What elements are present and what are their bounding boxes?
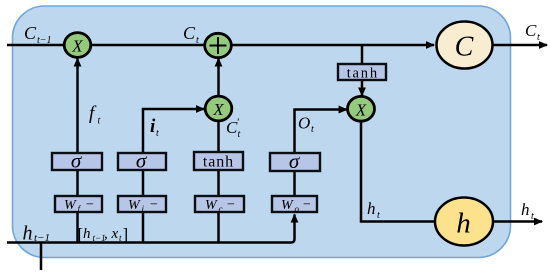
svg-text:]: ]: [123, 225, 129, 244]
wire hidden output elbow to h: [361, 121, 436, 222]
label [h_{t-1}, x_t]: [78, 225, 129, 244]
svg-text:W: W: [281, 198, 294, 213]
svg-text:σ: σ: [136, 149, 148, 173]
wire C output line: [492, 44, 547, 47]
wire tanh branch down from top line: [361, 45, 364, 64]
svg-text:t: t: [311, 124, 314, 135]
multiplier X2 (candidate): [205, 96, 232, 121]
svg-text:h: h: [456, 208, 471, 240]
multiplier X1 (forget): [64, 33, 91, 58]
wire output-gate column with elbow to X: [295, 110, 347, 172]
svg-text:X: X: [212, 100, 224, 119]
wire bottom input line: [7, 215, 295, 243]
label h_{t-1}: [23, 223, 50, 245]
svg-text:t: t: [531, 211, 534, 222]
multiplier X3 (output): [348, 96, 375, 121]
svg-text:−: −: [150, 198, 158, 213]
sigma gate box 4: [270, 149, 320, 173]
svg-text:h: h: [23, 223, 33, 245]
svg-text:tanh: tanh: [347, 66, 379, 82]
svg-text:t: t: [238, 129, 241, 140]
weight box Wo: [272, 196, 317, 214]
hidden state node h: [435, 198, 493, 246]
weight box Wf: [55, 196, 102, 214]
wire h output line: [493, 220, 542, 223]
label C_t (top middle): [183, 23, 199, 46]
svg-text:C: C: [525, 21, 537, 40]
label h_t (output right): [521, 200, 534, 222]
svg-text:−: −: [227, 198, 235, 213]
tanh box (top): [338, 64, 386, 82]
svg-text:O: O: [298, 114, 310, 133]
wire top cell-state line: [7, 44, 434, 47]
wire candidate column up to plus: [217, 59, 220, 244]
wire tanh box to X: [361, 80, 364, 96]
cell state node C: [437, 22, 493, 69]
svg-text:t−1: t−1: [37, 35, 52, 46]
svg-text:X: X: [71, 37, 83, 56]
svg-text:h: h: [83, 226, 91, 242]
svg-text:h: h: [521, 200, 530, 219]
label h_t (inner): [367, 199, 380, 221]
svg-text:C: C: [24, 23, 37, 43]
tanh gate box (candidate): [194, 152, 243, 171]
svg-text:t: t: [156, 128, 159, 139]
label i_t: [150, 116, 159, 139]
sigma gate box 2: [118, 149, 166, 173]
svg-text:C: C: [183, 23, 196, 43]
wire forget-gate column: [76, 59, 79, 244]
label f_t: [89, 103, 101, 127]
sigma gate box 1: [52, 149, 102, 173]
svg-text:h: h: [367, 199, 376, 218]
wire output-gate lower segment: [293, 171, 296, 212]
adder +: [205, 33, 232, 57]
svg-text:t: t: [377, 210, 380, 221]
svg-text:−: −: [303, 198, 311, 213]
svg-text:W: W: [128, 198, 141, 213]
svg-text:t: t: [98, 116, 101, 127]
label C'_t: [226, 117, 241, 141]
svg-text:tanh: tanh: [203, 154, 234, 171]
svg-text:o: o: [295, 204, 300, 214]
svg-text:W: W: [205, 198, 218, 213]
svg-text:t−1: t−1: [34, 232, 50, 244]
label C_{t-1}: [24, 23, 52, 46]
svg-text:X: X: [355, 100, 367, 119]
svg-text:, x: , x: [104, 226, 119, 242]
weight box Wi: [118, 196, 166, 214]
label O_t: [298, 114, 314, 136]
wire x_t input stub: [40, 243, 43, 271]
svg-text:c: c: [219, 204, 223, 214]
wire input-gate column with elbow to X: [143, 109, 204, 243]
svg-text:t: t: [537, 32, 540, 43]
svg-text:−: −: [86, 198, 94, 213]
svg-text:C: C: [455, 32, 474, 63]
svg-text:σ: σ: [289, 149, 301, 173]
label C_t (output right): [525, 21, 540, 43]
svg-text:t: t: [196, 35, 199, 46]
weight box Wc: [195, 196, 244, 214]
svg-text:W: W: [64, 198, 77, 213]
svg-text:σ: σ: [71, 149, 83, 173]
